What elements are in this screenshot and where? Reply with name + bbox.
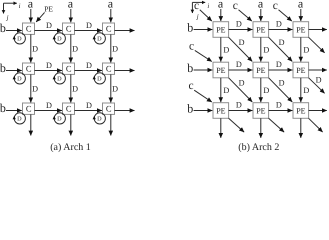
svg-text:D: D <box>276 60 282 69</box>
wire D col2 seg2 (Arch 2) <box>260 78 262 102</box>
wire D col2 seg2 (Arch 1) <box>70 74 72 102</box>
svg-text:D: D <box>72 85 78 94</box>
output wire row1 (Arch 2) <box>309 29 327 31</box>
svg-text:D: D <box>17 116 22 123</box>
svg-text:D: D <box>236 20 242 29</box>
wire D col3 seg1 (Arch 2) <box>300 37 302 61</box>
svg-text:c: c <box>188 80 193 92</box>
svg-text:PE: PE <box>296 106 305 115</box>
wire D col1 seg1 (Arch 2) <box>220 37 222 61</box>
svg-text:PE: PE <box>256 106 265 115</box>
wire D col1 seg1 (Arch 1) <box>30 34 32 62</box>
input b arrow row1 (Arch 2) <box>194 29 213 31</box>
cell PE33 <box>293 103 309 119</box>
output diagonal c PE31 <box>229 118 245 132</box>
svg-text:PE: PE <box>296 25 305 34</box>
svg-text:D: D <box>279 78 285 87</box>
output wire row1 (Arch 1) <box>115 30 135 32</box>
svg-text:c: c <box>233 0 238 12</box>
svg-text:C: C <box>106 103 112 113</box>
output wire col1 (Arch 2) <box>220 118 222 138</box>
diagonal wire c PE11 to PE22 <box>229 37 253 61</box>
svg-text:C: C <box>26 103 32 113</box>
self-loop delay D of C23 <box>94 73 105 84</box>
input c arrow col2 (Arch 2) <box>239 10 252 21</box>
svg-text:b: b <box>187 21 193 35</box>
output wire row3 (Arch 1) <box>115 110 135 112</box>
svg-text:b: b <box>0 21 6 35</box>
diagonal wire c PE22 to PE33 <box>269 78 293 102</box>
svg-text:D: D <box>46 21 52 30</box>
output wire row2 (Arch 2) <box>309 69 327 71</box>
input a arrow col3 (Arch 2) <box>300 9 302 21</box>
cell PE31 <box>213 103 229 119</box>
wire D row3 seg1 (Arch 1) <box>35 110 62 112</box>
input b arrow row3 (Arch 1) <box>6 110 22 112</box>
wire D col2 seg1 (Arch 1) <box>70 34 72 62</box>
svg-text:D: D <box>316 75 322 84</box>
self-loop delay D of C12 <box>54 33 65 44</box>
input c arrow row3 (Arch 2) <box>194 90 212 102</box>
svg-text:b: b <box>187 61 193 75</box>
input a arrow col2 (Arch 2) <box>260 9 262 21</box>
svg-text:D: D <box>72 45 78 54</box>
svg-text:D: D <box>97 116 102 123</box>
input a arrow col1 (Arch 1) <box>30 9 32 22</box>
svg-text:D: D <box>279 38 285 47</box>
cell PE21 <box>213 62 229 78</box>
axis j (Arch 1) <box>3 3 5 13</box>
svg-text:j: j <box>6 14 9 21</box>
svg-text:D: D <box>86 21 92 30</box>
output wire col2 (Arch 1) <box>70 114 72 135</box>
svg-text:c: c <box>273 0 278 12</box>
svg-text:PE: PE <box>216 66 225 75</box>
svg-text:C: C <box>26 23 32 33</box>
wire D row3 seg2 (Arch 1) <box>75 110 102 112</box>
cell PE11 <box>213 22 229 38</box>
svg-text:c: c <box>189 40 194 52</box>
svg-text:(a) Arch 1: (a) Arch 1 <box>50 142 91 153</box>
cell PE23 <box>293 62 309 78</box>
output diagonal c PE23 <box>309 78 325 94</box>
svg-text:PE: PE <box>256 66 265 75</box>
svg-text:D: D <box>303 86 309 95</box>
svg-text:i: i <box>207 3 209 10</box>
cell PE32 <box>253 103 269 119</box>
self-loop delay D of C13 <box>94 33 105 44</box>
self-loop delay D of C11 <box>14 33 25 44</box>
self-loop delay D of C32 <box>54 113 65 124</box>
svg-text:D: D <box>32 45 38 54</box>
wire D row1 seg1 (Arch 2) <box>229 29 253 31</box>
cell C23 <box>103 63 115 74</box>
svg-text:D: D <box>112 45 118 54</box>
cell C22 <box>63 63 75 74</box>
output wire row3 (Arch 2) <box>309 110 327 112</box>
input a arrow col2 (Arch 1) <box>70 9 72 22</box>
svg-text:D: D <box>97 76 102 83</box>
svg-text:D: D <box>32 85 38 94</box>
PE pointer arrow <box>36 12 44 22</box>
cell C31 <box>23 103 35 114</box>
output wire row2 (Arch 1) <box>115 70 135 72</box>
wire D row2 seg2 (Arch 2) <box>269 69 293 71</box>
input a arrow col1 (Arch 2) <box>220 9 222 21</box>
svg-text:D: D <box>57 116 62 123</box>
svg-text:D: D <box>236 101 242 110</box>
svg-text:D: D <box>239 38 245 47</box>
svg-text:i: i <box>19 3 21 10</box>
cell C12 <box>63 23 75 34</box>
svg-text:PE: PE <box>44 5 53 14</box>
wire D row2 seg1 (Arch 2) <box>229 69 253 71</box>
svg-text:D: D <box>46 101 52 110</box>
input b arrow row3 (Arch 2) <box>194 110 213 112</box>
cell PE13 <box>293 22 309 38</box>
wire D row3 seg1 (Arch 2) <box>229 110 253 112</box>
svg-text:D: D <box>86 61 92 70</box>
wire D col3 seg1 (Arch 1) <box>110 34 112 62</box>
svg-text:j: j <box>196 14 199 21</box>
input c arrow col1 (Arch 2) <box>200 10 212 21</box>
output diagonal c PE32 <box>269 118 285 132</box>
self-loop delay D of C22 <box>54 73 65 84</box>
svg-text:D: D <box>223 46 229 55</box>
wire D row2 seg1 (Arch 1) <box>35 70 62 72</box>
wire D row1 seg2 (Arch 1) <box>75 30 102 32</box>
svg-text:C: C <box>26 63 32 73</box>
diagonal wire c PE12 to PE23 <box>269 37 293 61</box>
output wire col1 (Arch 1) <box>30 114 32 135</box>
svg-text:C: C <box>66 63 72 73</box>
svg-text:D: D <box>276 20 282 29</box>
svg-text:D: D <box>57 76 62 83</box>
cell PE22 <box>253 62 269 78</box>
output wire col2 (Arch 2) <box>260 118 262 138</box>
wire D row1 seg2 (Arch 2) <box>269 29 293 31</box>
svg-text:c: c <box>194 0 199 12</box>
output wire col3 (Arch 2) <box>300 118 302 138</box>
svg-text:D: D <box>239 78 245 87</box>
svg-text:D: D <box>17 76 22 83</box>
svg-text:D: D <box>57 36 62 43</box>
svg-text:D: D <box>263 86 269 95</box>
cell C32 <box>63 103 75 114</box>
wire D row3 seg2 (Arch 2) <box>269 110 293 112</box>
svg-text:PE: PE <box>216 25 225 34</box>
svg-text:D: D <box>112 85 118 94</box>
output wire col3 (Arch 1) <box>110 114 112 135</box>
input c arrow row2 (Arch 2) <box>195 50 212 61</box>
output diagonal c PE13 <box>309 37 325 53</box>
wire D col3 seg2 (Arch 2) <box>300 78 302 102</box>
svg-text:C: C <box>66 103 72 113</box>
svg-text:PE: PE <box>296 66 305 75</box>
self-loop delay D of C31 <box>14 113 25 124</box>
axis i (Arch 1) <box>4 2 17 4</box>
wire D col1 seg2 (Arch 1) <box>30 74 32 102</box>
input b arrow row2 (Arch 2) <box>194 69 213 71</box>
svg-text:C: C <box>66 23 72 33</box>
diagonal wire c PE21 to PE32 <box>229 78 253 102</box>
svg-text:D: D <box>46 61 52 70</box>
svg-text:b: b <box>187 102 193 116</box>
cell C13 <box>103 23 115 34</box>
svg-text:D: D <box>97 36 102 43</box>
cell PE12 <box>253 22 269 38</box>
axis j (Arch 2) <box>191 2 193 13</box>
svg-text:C: C <box>106 23 112 33</box>
svg-text:D: D <box>223 86 229 95</box>
axis i (Arch 2) <box>192 1 205 3</box>
wire D row2 seg2 (Arch 1) <box>75 70 102 72</box>
svg-text:b: b <box>0 101 6 115</box>
svg-text:PE: PE <box>256 25 265 34</box>
self-loop delay D of C33 <box>94 113 105 124</box>
input b arrow row2 (Arch 1) <box>6 70 22 72</box>
input a arrow col3 (Arch 1) <box>110 9 112 22</box>
svg-text:PE: PE <box>216 106 225 115</box>
svg-text:D: D <box>263 46 269 55</box>
input b arrow row1 (Arch 1) <box>6 30 22 32</box>
cell C11 <box>23 23 35 34</box>
wire D col2 seg1 (Arch 2) <box>260 37 262 61</box>
wire D row1 seg1 (Arch 1) <box>35 30 62 32</box>
self-loop delay D of C21 <box>14 73 25 84</box>
wire D col1 seg2 (Arch 2) <box>220 78 222 102</box>
output diagonal c PE33 <box>309 118 323 132</box>
svg-text:b: b <box>0 61 6 75</box>
svg-text:C: C <box>106 63 112 73</box>
svg-text:D: D <box>17 36 22 43</box>
cell C21 <box>23 63 35 74</box>
svg-text:D: D <box>276 101 282 110</box>
wire D col3 seg2 (Arch 1) <box>110 74 112 102</box>
svg-text:(b) Arch 2: (b) Arch 2 <box>238 142 279 153</box>
svg-text:D: D <box>303 46 309 55</box>
svg-text:D: D <box>86 101 92 110</box>
svg-text:D: D <box>236 60 242 69</box>
input c arrow col3 (Arch 2) <box>279 10 292 21</box>
cell C33 <box>103 103 115 114</box>
